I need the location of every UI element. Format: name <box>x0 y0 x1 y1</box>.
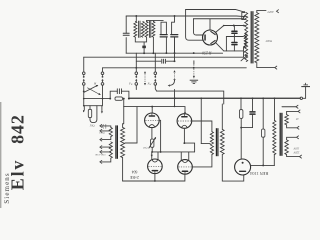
junction <box>174 60 176 62</box>
variable capacitor VC2 plates <box>171 35 178 37</box>
moving contact arrows F1 <box>144 72 145 85</box>
driver T3 left winding <box>210 132 213 155</box>
interstage T1 core <box>116 125 118 158</box>
variable capacitor VC1 plates <box>160 35 167 37</box>
terminal arrow 4V+ <box>298 110 300 113</box>
wire: V4 grid ext <box>192 155 212 167</box>
jack symbol <box>103 124 106 128</box>
wire: filament rail y151.9 <box>152 151 194 153</box>
triode V3 (RE604) <box>148 159 163 174</box>
wire: mains bottom lead <box>287 155 300 157</box>
wire: R2 top lead <box>89 106 91 110</box>
triode V1 <box>145 113 160 128</box>
label 220V <box>267 10 275 14</box>
wire: top grid bus <box>126 16 245 17</box>
wire: cathode diagonal <box>216 43 224 51</box>
rectifier U2 REN1104 <box>235 159 251 175</box>
capacitor C1 (left blocking cap) <box>123 33 129 35</box>
wire: left input drop <box>83 106 84 112</box>
wire: bus y60 <box>136 60 174 62</box>
junction <box>128 98 130 100</box>
capacitor C4a (anode blocking) <box>232 26 237 37</box>
junction <box>102 98 104 100</box>
junction <box>193 52 195 54</box>
scan edge shading <box>0 102 1 208</box>
terminal arrow speaker+ <box>277 10 279 13</box>
svg-text:50Ω: 50Ω <box>90 124 95 127</box>
moving contact arrow F3 <box>193 61 194 79</box>
coil L1 primary <box>134 22 137 38</box>
wire: tube V2 top lead <box>184 113 186 115</box>
wire: cap tap to primary <box>234 36 243 38</box>
junction <box>83 98 85 100</box>
wire: T1 right bottom lead <box>122 158 124 181</box>
interstage T1 left winding <box>109 127 112 158</box>
output transformer T2 secondary <box>255 13 259 63</box>
wire: anode diagonal <box>216 26 224 33</box>
label 1745-1746 (rotated) <box>94 153 105 156</box>
wire: RC node line <box>84 98 130 100</box>
svg-text:400Ω: 400Ω <box>265 39 272 43</box>
wire: trimmer leads <box>143 42 145 53</box>
resistor R2 50ohm <box>88 109 91 117</box>
junction <box>83 105 85 107</box>
wire: long vertical x174.5 <box>174 38 176 107</box>
junction <box>165 52 167 54</box>
svg-text:1745-1746: 1745-1746 <box>94 153 105 156</box>
variable capacitor VC1 frame <box>161 22 166 53</box>
wire: ground bus y98 (thick) <box>129 97 300 99</box>
junction <box>262 164 264 166</box>
svg-text:110V: 110V <box>293 146 299 149</box>
wire: T1 right top lead <box>123 107 124 128</box>
coil L2 secondary <box>152 22 155 38</box>
junction <box>174 106 176 108</box>
wire: V4 top leads <box>181 152 189 160</box>
interstage T1 right winding <box>121 127 125 157</box>
junction <box>233 25 235 27</box>
wire: T3 right bottom lead <box>222 154 243 181</box>
svg-text:604: 604 <box>132 169 138 173</box>
wire: bus 2 <box>147 20 164 22</box>
primary tap selector blade <box>241 55 247 61</box>
capacitor C5 (block) <box>250 98 255 127</box>
svg-text:4V: 4V <box>296 118 299 121</box>
tap arrows T1 <box>100 124 102 163</box>
wire: V2 cathode drop <box>183 128 185 143</box>
svg-text:H 250: H 250 <box>202 51 212 55</box>
junction <box>174 52 176 54</box>
junction <box>151 106 153 108</box>
terminal arrow (phono) <box>282 105 298 108</box>
wire: secondary bottom tap <box>257 63 275 68</box>
coil L2 primary <box>145 22 148 38</box>
capacitor C2 (series, horizontal) <box>162 59 166 63</box>
junction <box>200 97 202 99</box>
junction <box>252 97 254 99</box>
wire: V2 grid line <box>192 121 212 132</box>
driver T3 core <box>216 128 218 156</box>
junction <box>109 98 111 100</box>
mains T4 core <box>280 113 282 156</box>
wire: outer box top <box>186 10 245 13</box>
junction <box>135 67 137 69</box>
wire: anode riser <box>240 128 242 159</box>
wire: anode line y25.5 <box>224 25 245 26</box>
wire: bus y53 <box>126 52 222 54</box>
label Fw2 <box>147 82 152 87</box>
mains T4 filament winding <box>285 115 289 125</box>
wire: R5 to node <box>240 118 242 127</box>
varistor R4 (bias) <box>149 138 156 148</box>
transformer core T_L2 <box>149 21 150 38</box>
wire: tube V1 top lead <box>151 107 153 114</box>
svg-text:220V: 220V <box>293 151 299 154</box>
triode U1 envelope <box>203 30 218 45</box>
wire: smoothing drop <box>262 98 264 129</box>
wire: bus y57 <box>84 56 244 58</box>
label Fw1 <box>128 82 133 87</box>
junction <box>262 97 264 99</box>
wire: filament top tap <box>287 111 298 114</box>
terminal arrow 4V- <box>297 126 299 129</box>
triode V4 (RE604) <box>178 160 193 175</box>
wire: long vertical x201 <box>200 98 202 143</box>
junction <box>234 36 236 38</box>
wire: branch to AF bus <box>123 98 125 107</box>
switch contact chain S4 <box>154 53 157 91</box>
label 50ohm <box>90 124 95 127</box>
wire: cathode bus y181 <box>123 174 185 181</box>
mains T4 mains winding <box>285 140 289 155</box>
label 842 (rotated margin) <box>7 114 27 144</box>
wire: L2 secondary top lead <box>147 20 154 23</box>
resistor R6 <box>262 129 265 137</box>
wire: T3 left tap <box>201 143 210 145</box>
label Siemens (rotated margin) <box>3 172 11 203</box>
wire: bus y91 <box>157 91 224 104</box>
earth symbol E1 <box>301 83 310 86</box>
label 40ohm <box>143 146 147 149</box>
wire: inner top <box>194 16 245 30</box>
output transformer T2 primary <box>244 13 248 62</box>
terminal circle (earth post) <box>300 97 302 99</box>
junction <box>143 52 145 54</box>
wire: T1 tap link <box>126 142 137 144</box>
mains T4 primary winding <box>273 120 276 154</box>
svg-text:40Ω: 40Ω <box>143 146 147 149</box>
label 110V 220V (rotated) <box>293 146 299 153</box>
wire: V3 top leads <box>151 152 158 160</box>
junction <box>160 151 162 153</box>
ground symbol (below F3) <box>190 80 198 83</box>
switch contact chain S2 <box>101 68 104 106</box>
wire: drop x137 <box>136 107 138 143</box>
wire: T1 left taps <box>102 126 111 162</box>
junction <box>183 142 185 144</box>
wire: link y143.1 <box>184 143 194 152</box>
junction on grid bus <box>174 15 176 17</box>
wire: T4 HV bottom lead <box>273 155 275 166</box>
wire: bus y67.8 <box>103 67 247 69</box>
label H 250 (rotated) <box>202 51 212 55</box>
wire: L1 top lead <box>135 16 137 22</box>
wire: T1 right tap <box>125 142 137 144</box>
wire: coil bottom bracket <box>135 37 146 42</box>
variable capacitor VC2 frame <box>172 16 175 53</box>
wire: outer L into tube <box>186 10 204 41</box>
wire: line y51 <box>224 50 244 52</box>
capacitor C3 (grid cap) <box>110 89 129 99</box>
wire: inner L into tube <box>194 19 203 35</box>
wire: filament bottom tap <box>287 125 297 128</box>
label Elv (rotated margin) <box>7 159 27 190</box>
trimmer block (iron core slug) <box>142 46 146 49</box>
wire: right input drop <box>101 106 102 113</box>
junction on grid bus <box>135 15 137 17</box>
wire: node to cap <box>241 127 252 129</box>
terminal arrow speaker- <box>275 66 277 69</box>
svg-text:842: 842 <box>7 114 27 144</box>
wire: HT feed <box>240 98 242 109</box>
svg-text:2×RE: 2×RE <box>129 175 139 179</box>
label 2xRE 604 (rotated) <box>129 169 139 179</box>
label H <box>93 81 97 85</box>
driver T3 right winding <box>220 129 224 154</box>
junction <box>174 97 176 99</box>
junction <box>240 127 242 129</box>
transformer core T2 <box>251 11 253 63</box>
junction <box>223 25 225 27</box>
switch contact chain S3 <box>135 53 138 89</box>
wire: input link <box>84 105 102 107</box>
wire: T4 HV top lead <box>274 98 276 120</box>
triode V2 <box>177 114 192 129</box>
junction <box>154 180 156 182</box>
resistor R1 (grid leak) <box>115 97 123 100</box>
wire: left branch vertical <box>125 16 127 53</box>
wire: primary taps bracket <box>242 12 245 57</box>
label 400 ohm <box>265 39 272 43</box>
terminal arrow mains <box>300 155 302 158</box>
junction <box>152 52 154 54</box>
wire: R6 lower lead <box>262 137 264 165</box>
wire: R2 loop <box>90 106 97 123</box>
triode U1 electrodes <box>204 31 215 43</box>
transformer core T_L1 <box>139 21 140 38</box>
resistor R5 <box>240 110 243 119</box>
label 4V <box>296 118 299 121</box>
coil L1 secondary <box>141 22 144 38</box>
wire: earth riser <box>303 87 306 99</box>
label REN 1104 (rotated) <box>249 171 268 176</box>
wire: T3 right top lead <box>221 104 223 129</box>
wire: V1 bias to rail <box>151 147 153 152</box>
junction <box>151 151 153 153</box>
label 100ohm <box>99 132 105 135</box>
switch contact chain S1 <box>82 57 85 105</box>
moving contact arrows F2 <box>169 71 176 86</box>
svg-text:100Ω: 100Ω <box>99 132 105 135</box>
wire: rect output <box>251 164 275 166</box>
svg-text:REN 1104: REN 1104 <box>249 171 268 176</box>
switch blade S1 <box>83 85 98 92</box>
wire: V1 grid ext <box>159 119 160 121</box>
wire: AF grid bus y106.6 <box>124 107 186 114</box>
svg-text:Elv: Elv <box>7 159 27 190</box>
switch blade S2 <box>88 88 101 95</box>
junction <box>193 67 195 69</box>
wire: V1 cathode drop <box>151 128 153 139</box>
junction <box>240 97 242 99</box>
wire: x160.6 drop <box>160 120 162 152</box>
wire: secondary top tap <box>257 10 266 12</box>
wire: cap bypass loop <box>226 37 234 51</box>
wire: V3 bottom lead <box>154 174 156 181</box>
capacitor C4b (blocking) <box>232 37 237 51</box>
wire: mains top tap <box>287 137 297 140</box>
junction <box>274 97 276 99</box>
terminal arrow mains tap <box>297 136 299 139</box>
wire: L2 sec bottom lead <box>152 37 154 53</box>
